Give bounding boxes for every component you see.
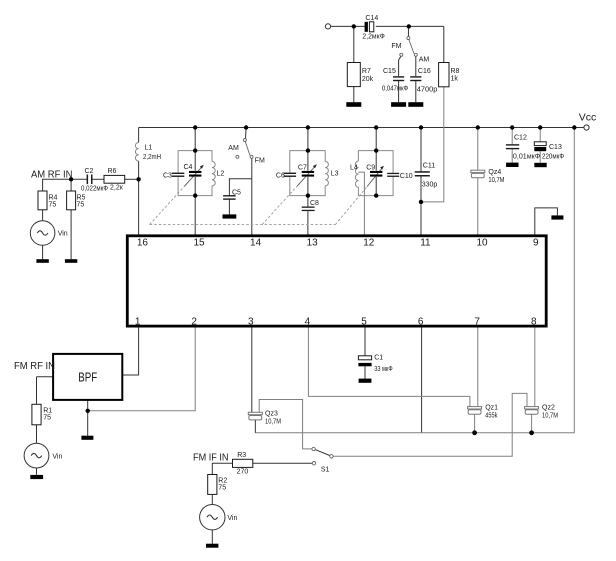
svg-text:10,7M: 10,7M [542, 413, 558, 420]
svg-text:Vin: Vin [52, 453, 62, 460]
svg-text:Qz2: Qz2 [542, 405, 555, 412]
svg-text:6: 6 [418, 316, 424, 327]
svg-text:C5: C5 [232, 189, 241, 196]
svg-text:0,047мкФ: 0,047мкФ [382, 85, 408, 92]
svg-text:AM: AM [419, 57, 430, 64]
svg-text:R8: R8 [451, 68, 460, 75]
svg-text:3: 3 [248, 316, 254, 327]
svg-text:C13: C13 [549, 144, 562, 151]
svg-text:C8: C8 [310, 200, 319, 207]
svg-text:Qz1: Qz1 [485, 405, 498, 412]
svg-text:75: 75 [77, 202, 85, 209]
svg-text:R4: R4 [49, 194, 58, 201]
svg-text:Qz3: Qz3 [265, 410, 278, 417]
svg-text:C1: C1 [374, 354, 383, 361]
svg-text:C2: C2 [85, 168, 94, 175]
svg-text:5: 5 [361, 316, 367, 327]
svg-text:R5: R5 [77, 194, 86, 201]
svg-text:75: 75 [49, 202, 57, 209]
svg-text:7: 7 [474, 316, 480, 327]
svg-text:Vin: Vin [58, 231, 68, 238]
svg-text:R7: R7 [362, 68, 371, 75]
svg-text:L2: L2 [217, 171, 225, 178]
svg-text:2: 2 [191, 316, 197, 327]
svg-text:C7: C7 [298, 164, 307, 171]
svg-text:Qz4: Qz4 [488, 169, 501, 176]
svg-text:10: 10 [476, 238, 488, 249]
svg-text:FM: FM [391, 43, 401, 50]
svg-text:FM RF IN: FM RF IN [14, 360, 55, 372]
svg-text:BPF: BPF [78, 370, 97, 384]
svg-text:Vcc: Vcc [579, 112, 597, 124]
svg-text:2,2mH: 2,2mH [143, 154, 161, 161]
svg-text:14: 14 [250, 238, 262, 249]
svg-text:FM IF IN: FM IF IN [193, 452, 229, 464]
svg-text:11: 11 [420, 238, 431, 249]
svg-text:R1: R1 [43, 407, 52, 414]
svg-text:C9: C9 [366, 164, 375, 171]
svg-text:12: 12 [363, 238, 375, 249]
svg-text:C4: C4 [184, 164, 193, 171]
svg-text:FM: FM [255, 158, 265, 165]
svg-text:0,022мкФ: 0,022мкФ [81, 185, 108, 192]
svg-text:2,2мкФ: 2,2мкФ [362, 34, 385, 41]
svg-text:15: 15 [193, 238, 205, 249]
svg-text:4700p: 4700p [417, 86, 438, 93]
svg-text:10,7M: 10,7M [265, 419, 281, 426]
svg-text:AM: AM [228, 145, 239, 152]
svg-text:0,01мкФ: 0,01мкФ [513, 153, 540, 160]
svg-text:R3: R3 [237, 452, 246, 459]
svg-text:S1: S1 [321, 467, 330, 474]
svg-text:C12: C12 [514, 135, 527, 142]
svg-text:L4: L4 [350, 164, 358, 171]
svg-text:C10: C10 [400, 173, 413, 180]
svg-text:33 мкФ: 33 мкФ [374, 366, 393, 373]
svg-text:455k: 455k [485, 413, 498, 420]
svg-text:R6: R6 [108, 168, 117, 175]
svg-text:10,7M: 10,7M [488, 177, 504, 184]
svg-text:C6: C6 [276, 173, 285, 180]
svg-text:R2: R2 [218, 477, 227, 484]
svg-text:270: 270 [237, 468, 249, 475]
svg-text:8: 8 [531, 316, 537, 327]
svg-text:9: 9 [533, 238, 539, 249]
svg-text:1k: 1k [451, 75, 459, 82]
svg-text:1: 1 [135, 316, 141, 327]
svg-text:4: 4 [305, 316, 311, 327]
svg-text:AM RF IN: AM RF IN [31, 169, 73, 181]
svg-text:C15: C15 [383, 68, 396, 75]
svg-text:Vin: Vin [227, 515, 237, 522]
svg-text:2,2к: 2,2к [110, 184, 124, 191]
svg-text:20k: 20k [362, 76, 374, 83]
svg-text:16: 16 [137, 238, 149, 249]
svg-text:220мкФ: 220мкФ [542, 153, 564, 160]
svg-text:C14: C14 [365, 15, 378, 22]
svg-text:C3: C3 [163, 173, 172, 180]
svg-text:C11: C11 [423, 162, 435, 169]
svg-text:13: 13 [307, 238, 319, 249]
svg-text:75: 75 [218, 484, 226, 491]
svg-text:75: 75 [43, 415, 51, 422]
svg-text:L1: L1 [145, 145, 153, 152]
svg-text:L3: L3 [331, 171, 339, 178]
svg-text:C16: C16 [418, 68, 431, 75]
svg-text:330p: 330p [422, 182, 438, 189]
